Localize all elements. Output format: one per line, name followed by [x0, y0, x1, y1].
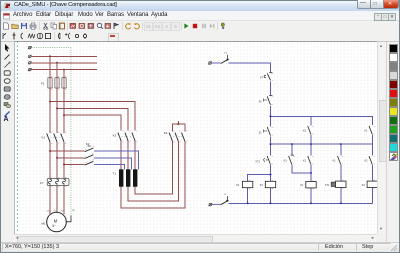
coil K1	[306, 182, 316, 188]
wire feed to F7	[228, 63, 270, 72]
wire branch to K2 coil	[248, 175, 271, 182]
wire transformer2 bottom to star contact	[128, 141, 178, 201]
wire tap blue 2	[94, 158, 132, 170]
toolbar row 1 icons	[2, 22, 10, 30]
svg-text:K4: K4	[164, 131, 168, 135]
svg-text:K1: K1	[300, 184, 304, 187]
pin number marks control	[249, 74, 375, 189]
autotransformer T1 winding 1	[119, 169, 123, 186]
svg-text:KT1: KT1	[325, 184, 330, 187]
wire K1 column rail2 to K1aux	[310, 144, 312, 155]
node bottom K2coil	[247, 202, 249, 204]
contactor K4 star contacts	[169, 133, 185, 142]
wire N lead	[212, 203, 221, 205]
canvas	[14, 41, 377, 234]
svg-text:K2: K2	[86, 142, 90, 146]
wire K3nc branch	[291, 144, 293, 155]
wire KT1 column	[340, 144, 342, 155]
contact K2 aux NO	[308, 126, 311, 135]
svg-text:M: M	[54, 218, 58, 223]
node K1 coil join	[310, 172, 312, 174]
node L3 tap	[63, 69, 65, 71]
svg-text:F1: F1	[41, 82, 45, 86]
node star point	[177, 123, 179, 125]
svg-text:K2: K2	[303, 129, 307, 132]
svg-text:K1: K1	[333, 159, 337, 162]
svg-text:K2: K2	[364, 159, 368, 162]
node bottom K1coil	[310, 202, 312, 204]
node phase2 tap branch	[56, 157, 58, 159]
wire K1 column upper	[310, 116, 312, 125]
terminal control N	[209, 203, 213, 206]
wire F7 to S0	[270, 81, 272, 95]
wire rail1	[271, 116, 373, 125]
wire node2 to KT1 contact	[270, 144, 272, 155]
wire phase3 vertical upper	[63, 70, 65, 133]
fuse F1 pole1	[48, 78, 52, 88]
contact S1 start NO	[264, 127, 271, 136]
wire phase2 below K1 contact	[56, 142, 58, 179]
contactor K2 tap contacts	[85, 148, 94, 165]
terminal PE	[28, 46, 32, 49]
svg-text:F7: F7	[260, 77, 263, 80]
wire rail L1	[32, 55, 98, 57]
svg-text:F7: F7	[40, 181, 44, 185]
svg-text:K3: K3	[362, 184, 366, 187]
wire S0 to node1	[270, 106, 272, 117]
left tool icons	[3, 43, 12, 52]
wire phase3 below K1 contact	[63, 142, 65, 179]
wire K1 coil to bottom rail	[310, 188, 312, 203]
K2 linkage	[87, 145, 91, 147]
coil K3	[265, 181, 275, 187]
node phase3 K3 feed	[63, 114, 65, 116]
wire K3 feed phase3	[64, 115, 121, 130]
wire phase2 vertical upper	[56, 63, 58, 133]
node N	[226, 200, 228, 202]
wire phase1 below K1 contact	[49, 142, 51, 179]
wire K3 feed phase2	[57, 108, 128, 130]
Q1 stub	[227, 55, 229, 58]
contactor K1 main contacts	[47, 133, 64, 142]
wire bottom rail	[228, 202, 372, 204]
contact K2 aux2 NO	[369, 156, 372, 165]
svg-text:S0: S0	[259, 100, 263, 103]
node phase3 tap branch	[63, 163, 65, 165]
node L2 tap	[56, 62, 58, 64]
svg-text:S1: S1	[259, 131, 263, 134]
overload element 1	[48, 179, 51, 185]
wire node1 to S1	[270, 116, 272, 126]
wire K3 coil to bottom rail	[270, 188, 272, 204]
contact KT1 column aux NO	[338, 156, 341, 165]
wire K3 feed phase1	[50, 102, 135, 131]
node rail2 S1col	[270, 143, 272, 145]
coil K3b	[367, 181, 377, 187]
node L1 tap	[49, 55, 51, 57]
svg-text:F1: F1	[224, 53, 227, 55]
node phase1 K3 feed	[49, 101, 51, 103]
wire node3 to K3 coil	[270, 175, 272, 182]
overload element 3	[62, 179, 65, 185]
K3 linkage	[119, 135, 134, 137]
sheet margin line	[17, 41, 19, 233]
switch Q1 blade	[221, 59, 228, 63]
svg-text:K1: K1	[303, 159, 307, 162]
contact F7 NC thermal	[264, 72, 272, 80]
wire motor lead W1	[63, 186, 65, 214]
svg-text:K3: K3	[284, 159, 288, 162]
contact S0 stop NC	[264, 95, 273, 105]
wire transformer3 bottom to star contact	[135, 141, 172, 194]
overload relay F7 box	[47, 178, 69, 185]
wire tap blue 1	[94, 151, 139, 169]
contact K1 aux NO	[308, 156, 311, 165]
node bottom KT1coil	[340, 202, 342, 204]
wire K3 to transformer 2	[127, 141, 129, 170]
wire rail L2	[32, 62, 97, 64]
fuse F1 pole3	[62, 78, 66, 88]
svg-text:T1: T1	[112, 172, 116, 176]
wire K1 column K2aux to rail2	[310, 135, 312, 144]
wire PE dotted vertical	[70, 48, 72, 216]
K4 linkage	[170, 135, 183, 137]
fuse F1 pole2	[55, 78, 59, 88]
wire tap blue 3	[94, 164, 125, 169]
wire tap branch 2	[57, 157, 84, 159]
node rail1 S1	[270, 115, 272, 117]
N stub	[226, 196, 228, 199]
overload element 2	[55, 179, 58, 185]
wire control feed lead	[212, 62, 221, 64]
node branch K2K3	[270, 174, 272, 176]
wire K2aux2 to K3b coil	[371, 165, 373, 181]
wire PE dotted horizontal	[32, 47, 72, 49]
pin number marks power	[51, 77, 187, 187]
terminal L3	[28, 68, 32, 71]
svg-text:K3: K3	[113, 133, 117, 137]
terminal control L	[208, 62, 212, 65]
svg-text:M1: M1	[42, 222, 46, 226]
terminal L1	[28, 55, 32, 58]
wire K1seal to rail2	[371, 135, 373, 144]
wire KT1 contact to node3	[270, 165, 272, 174]
svg-text:PE: PE	[72, 210, 75, 212]
wire K3 to transformer 3	[134, 141, 136, 170]
node phase1 tap branch	[49, 150, 51, 152]
wire star bus	[172, 121, 184, 131]
node bottom K3coil	[270, 202, 272, 204]
wire K1aux to K1 coil	[310, 165, 312, 181]
wire KT1aux to KT1 coil	[340, 165, 342, 181]
wire K1 seal column upper	[371, 124, 373, 126]
autotransformer T1 winding 3	[133, 169, 137, 186]
svg-text:K2: K2	[236, 184, 240, 187]
K1 linkage	[48, 136, 63, 138]
node rail2 KT1col	[340, 143, 342, 145]
wire transformer1 bottom to star contact	[121, 141, 185, 208]
wire motor lead U1	[49, 186, 51, 214]
svg-text:KT1: KT1	[256, 160, 261, 163]
node rail2 K3nc	[291, 143, 293, 145]
wire KT1 coil to bottom rail	[340, 188, 342, 204]
wire motor lead V1	[56, 186, 58, 214]
wire K3 to transformer 1	[120, 141, 122, 170]
wire K3nc to join	[292, 165, 311, 173]
wire K3b coil to bottom rail	[371, 188, 373, 204]
svg-text:K1: K1	[364, 129, 368, 132]
contact KT1 timed NO	[264, 156, 271, 165]
node phase2 K3 feed	[56, 107, 58, 109]
svg-text:K1: K1	[42, 136, 46, 140]
contactor K3 contacts	[118, 133, 135, 142]
svg-text:K3: K3	[260, 184, 264, 187]
wire tap branch 3	[64, 163, 84, 165]
wire tap branch 1	[50, 150, 84, 152]
contact K3 aux NC	[289, 155, 294, 165]
wire S1 to node2	[270, 137, 272, 145]
terminal L2	[28, 61, 32, 64]
coil K2	[242, 181, 252, 187]
switch N blade	[221, 201, 228, 205]
svg-text:N: N	[224, 194, 226, 196]
coil KT1 timer	[331, 181, 346, 187]
contact K1 seal NO	[369, 126, 372, 135]
wire rail2 to K2aux2	[371, 144, 373, 155]
motor M1	[47, 212, 67, 232]
svg-text:3~: 3~	[52, 224, 56, 228]
node Q1	[227, 58, 229, 60]
wire PE to motor frame	[67, 215, 71, 222]
wire phase1 vertical upper	[49, 56, 51, 133]
node rail2 K1col	[310, 143, 312, 145]
toolbar row 2 icons	[1, 32, 9, 40]
wire rail2	[271, 143, 373, 145]
autotransformer T1 winding 2	[126, 169, 130, 186]
wire rail L3	[32, 69, 98, 71]
wire K2 coil to bottom rail	[247, 188, 249, 204]
